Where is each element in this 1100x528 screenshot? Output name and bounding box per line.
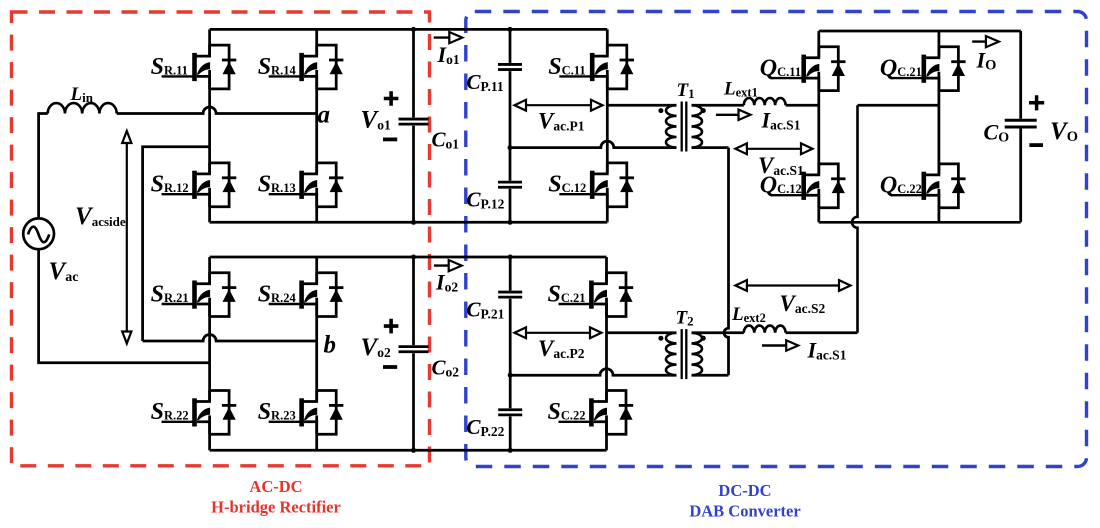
label V_O plus xyxy=(1029,95,1044,110)
svg-text:IO: IO xyxy=(976,48,997,74)
svg-text:SR.21: SR.21 xyxy=(151,281,189,307)
wire leg dab sec bridge right xyxy=(938,31,941,222)
transistor switch S_C.22 xyxy=(559,390,634,434)
wire to node b (hump over left leg) xyxy=(143,335,317,341)
svg-text:SR.11: SR.11 xyxy=(151,54,188,80)
svg-text:CO: CO xyxy=(984,120,1010,146)
capacitor C_P.11 xyxy=(498,64,522,69)
arrow V_ac.P1 xyxy=(521,104,595,106)
arrow I_O xyxy=(972,40,991,42)
capacitor C_o2 xyxy=(399,347,429,352)
svg-text:Lext2: Lext2 xyxy=(731,304,766,325)
wire leg dab cell2 switch xyxy=(605,257,608,450)
wire C_o2 branch xyxy=(412,257,415,450)
svg-text:AC-DC: AC-DC xyxy=(249,477,302,496)
label V_o2 plus xyxy=(384,319,399,334)
wire T2 secondary bottom xyxy=(692,374,729,377)
svg-text:QC.22: QC.22 xyxy=(880,173,922,199)
wire cell2 caps mid to T2 primary bottom (hump over switch leg) xyxy=(510,369,676,376)
transistor switch Q_C.21 xyxy=(891,46,966,90)
svg-text:SR.13: SR.13 xyxy=(258,172,296,198)
svg-text:T1: T1 xyxy=(677,80,695,101)
svg-text:Io2: Io2 xyxy=(435,270,458,295)
T2 polarity dots xyxy=(658,336,663,341)
capacitor C_o1 xyxy=(399,119,429,124)
svg-text:CP.22: CP.22 xyxy=(467,415,505,439)
wire ac left vertical top xyxy=(37,112,40,218)
wire ac phase to node a (hump over left leg) xyxy=(117,107,317,113)
inductor L_ext1 xyxy=(744,98,786,105)
wire to Q leg2 mid xyxy=(858,104,939,107)
svg-text:SR.22: SR.22 xyxy=(151,399,189,425)
svg-text:Co1: Co1 xyxy=(432,128,460,152)
capacitor C_P.21 xyxy=(498,292,522,297)
wire leg rect bridge1 right xyxy=(315,29,318,222)
svg-text:SR.12: SR.12 xyxy=(151,172,189,198)
capacitor C_P.22 xyxy=(498,410,522,415)
arrow V_ac.S2 xyxy=(742,284,843,286)
svg-text:Lin: Lin xyxy=(70,84,94,105)
wire L_ext1 to Q bridge left leg mid xyxy=(786,104,819,107)
svg-text:DC-DC: DC-DC xyxy=(718,481,771,500)
svg-text:QC.21: QC.21 xyxy=(880,56,922,82)
svg-text:DAB Converter: DAB Converter xyxy=(689,502,800,521)
DC-DC DAB converter boundary box (blue dashed) xyxy=(466,12,1087,467)
wire mid rail lower xyxy=(210,256,607,259)
capacitor C_P.12 xyxy=(498,182,522,187)
label V_o2 minus xyxy=(383,365,397,369)
wire cell1 caps mid to T1 primary bottom (hump over switch leg) xyxy=(510,141,677,147)
svg-text:SC.21: SC.21 xyxy=(548,281,586,307)
svg-text:Io1: Io1 xyxy=(437,42,460,67)
wire ac left vertical bottom xyxy=(37,249,40,363)
transistor switch S_R.22 xyxy=(162,390,237,434)
transistor switch S_R.21 xyxy=(162,272,237,316)
svg-text:SR.14: SR.14 xyxy=(258,54,297,80)
wire leg rect bridge2 right xyxy=(315,257,318,450)
wire mid rail upper xyxy=(210,221,608,224)
transistor switch S_R.13 xyxy=(269,162,344,206)
wire ac return xyxy=(37,361,209,364)
wire ac top xyxy=(39,112,48,115)
source V_ac xyxy=(23,218,54,249)
svg-text:Iac.S1: Iac.S1 xyxy=(761,107,801,132)
AC-DC rectifier boundary box (red dashed) xyxy=(12,12,430,466)
wire Q bridge top rail xyxy=(819,30,1021,33)
transistor switch S_C.11 xyxy=(559,45,634,89)
svg-text:Vacside: Vacside xyxy=(75,203,126,230)
transistor switch S_C.12 xyxy=(559,162,634,206)
transistor switch S_R.14 xyxy=(269,45,344,89)
arrow I_ac.S1 bottom xyxy=(762,344,791,346)
transistor switch S_R.23 xyxy=(269,390,344,434)
label V_O minus xyxy=(1029,143,1043,147)
label V_o1 minus xyxy=(383,137,397,141)
wire Q bridge bottom rail (hump at secondary riser) xyxy=(819,221,1021,224)
wire leg rect bridge1 left xyxy=(208,29,211,222)
wire L_ext2 up to Q bridge right leg mid (hop over Q bottom rail) xyxy=(786,331,858,334)
svg-text:SC.22: SC.22 xyxy=(548,399,586,425)
svg-text:SC.11: SC.11 xyxy=(548,54,585,80)
arrow I_o1 xyxy=(434,36,455,38)
svg-text:a: a xyxy=(318,101,331,128)
inductor L_ext2 xyxy=(744,326,786,333)
svg-text:QC.11: QC.11 xyxy=(760,56,801,82)
wire leg rect bridge2 left xyxy=(208,257,211,450)
svg-text:T2: T2 xyxy=(676,308,694,329)
arrow I_ac.S1 top xyxy=(716,114,743,116)
arrow V_ac.P2 xyxy=(521,332,594,334)
svg-text:CP.12: CP.12 xyxy=(467,188,505,212)
arrow V_acside xyxy=(126,138,128,336)
wire leg dab cell1 switch xyxy=(606,29,609,222)
svg-text:SR.23: SR.23 xyxy=(258,399,296,425)
transistor switch S_C.21 xyxy=(559,272,634,316)
svg-text:Vac.P1: Vac.P1 xyxy=(538,108,585,133)
svg-text:SR.24: SR.24 xyxy=(258,281,297,307)
svg-text:CP.21: CP.21 xyxy=(467,298,505,322)
arrow V_ac.S1 xyxy=(742,148,805,150)
wire C_P caps leg cell1 xyxy=(509,29,512,222)
wire Q bridge right vertical xyxy=(1019,31,1022,222)
junction dots on rails xyxy=(411,27,513,453)
wire cell1 mid to transformer T1 primary top xyxy=(607,104,676,107)
inductor L_in xyxy=(48,103,117,113)
transformer T1 xyxy=(666,102,702,152)
transistor switch Q_C.22 xyxy=(891,163,966,207)
transistor switch S_R.11 xyxy=(162,45,237,89)
svg-text:Lext1: Lext1 xyxy=(723,78,758,99)
svg-text:Iac.S1: Iac.S1 xyxy=(807,338,847,363)
svg-text:Vac: Vac xyxy=(49,258,79,285)
svg-text:H-bridge Rectifier: H-bridge Rectifier xyxy=(211,498,341,517)
svg-text:Vo1: Vo1 xyxy=(361,107,391,134)
wire C_P caps leg cell2 xyxy=(509,257,512,450)
wire bottom rail xyxy=(210,449,607,452)
wire T2 secondary top to L_ext2 xyxy=(692,331,744,334)
arrow I_o2 xyxy=(434,264,454,266)
transistor switch Q_C.12 xyxy=(771,163,846,207)
transistor switch S_R.12 xyxy=(162,162,237,206)
wire leg dab sec bridge left xyxy=(817,31,820,222)
capacitor C_O xyxy=(1005,119,1037,122)
transformer T2 xyxy=(666,329,702,379)
svg-text:Vo2: Vo2 xyxy=(361,334,391,361)
svg-text:SC.12: SC.12 xyxy=(548,172,586,198)
wire top rail xyxy=(210,28,608,31)
wire cell2 mid to transformer T2 primary top xyxy=(607,331,677,334)
label V_o1 plus xyxy=(384,91,399,106)
svg-text:Vac.P2: Vac.P2 xyxy=(538,336,585,361)
T1 polarity dots xyxy=(658,108,663,113)
transistor switch Q_C.11 xyxy=(771,46,846,90)
svg-text:b: b xyxy=(324,332,337,359)
wire top bridge left-mid tap xyxy=(143,147,210,341)
svg-text:Vac.S1: Vac.S1 xyxy=(758,153,804,178)
svg-text:Vac.S2: Vac.S2 xyxy=(780,291,826,316)
wire T1 secondary top to L_ext1 xyxy=(692,104,744,107)
wire C_o1 branch xyxy=(412,29,415,222)
svg-text:VO: VO xyxy=(1050,118,1078,145)
transistor switch S_R.24 xyxy=(269,272,344,316)
svg-text:CP.11: CP.11 xyxy=(467,70,504,94)
wire T1 secondary bottom down to T2 secondary bottom (hop over L_ext2 wire) xyxy=(692,146,729,149)
svg-text:Co2: Co2 xyxy=(432,355,460,379)
